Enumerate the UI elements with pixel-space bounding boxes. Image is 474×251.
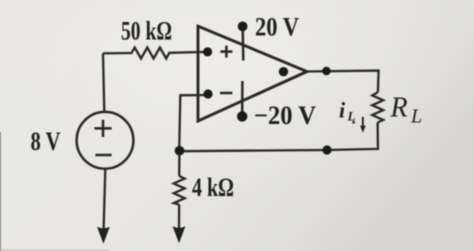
svg-text:50 kΩ: 50 kΩ bbox=[121, 17, 172, 46]
svg-text:L: L bbox=[410, 106, 422, 128]
svg-text:−20 V: −20 V bbox=[254, 101, 316, 130]
svg-text:i: i bbox=[339, 98, 346, 123]
svg-text:R: R bbox=[390, 93, 408, 124]
svg-text:4 kΩ: 4 kΩ bbox=[192, 173, 234, 202]
svg-text:20 V: 20 V bbox=[255, 13, 299, 42]
svg-text:8 V: 8 V bbox=[31, 127, 61, 156]
